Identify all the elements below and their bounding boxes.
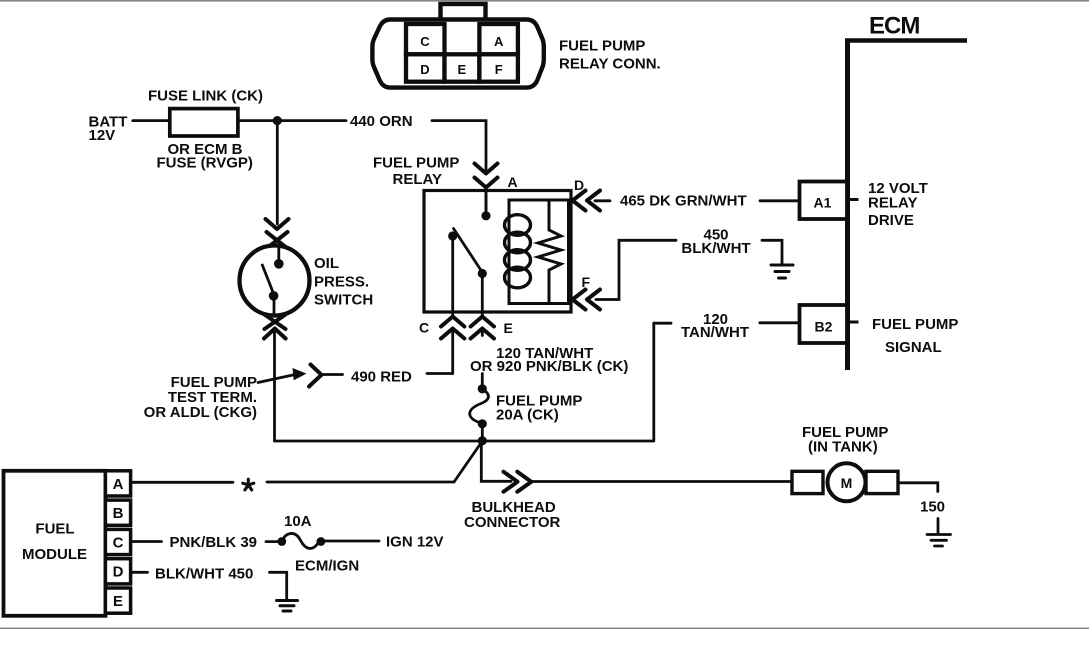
svg-text:TAN/WHT: TAN/WHT: [681, 324, 749, 341]
svg-text:RELAY CONN.: RELAY CONN.: [559, 55, 661, 72]
svg-text:RELAY: RELAY: [393, 171, 442, 188]
svg-text:12V: 12V: [89, 127, 116, 144]
svg-text:MODULE: MODULE: [22, 546, 87, 563]
svg-text:150: 150: [920, 498, 945, 515]
svg-text:F: F: [582, 274, 591, 290]
svg-text:M: M: [841, 475, 853, 491]
svg-text:A1: A1: [814, 195, 832, 211]
svg-text:B2: B2: [815, 318, 833, 334]
svg-text:SWITCH: SWITCH: [314, 291, 373, 308]
svg-text:FUEL PUMP: FUEL PUMP: [373, 154, 459, 171]
svg-text:DRIVE: DRIVE: [868, 212, 914, 229]
svg-text:D: D: [574, 177, 584, 193]
svg-text:440 ORN: 440 ORN: [350, 113, 413, 130]
svg-text:OR 920 PNK/BLK (CK): OR 920 PNK/BLK (CK): [470, 358, 628, 375]
svg-text:E: E: [113, 593, 123, 610]
svg-text:D: D: [420, 62, 429, 77]
svg-text:F: F: [495, 62, 503, 77]
svg-text:ECM/IGN: ECM/IGN: [295, 558, 359, 575]
svg-text:BLK/WHT: BLK/WHT: [681, 240, 750, 257]
svg-text:FUSE (RVGP): FUSE (RVGP): [157, 154, 253, 171]
svg-text:SIGNAL: SIGNAL: [885, 339, 942, 356]
svg-text:E: E: [504, 320, 513, 336]
svg-text:20A (CK): 20A (CK): [496, 406, 559, 423]
svg-text:C: C: [113, 534, 124, 551]
svg-text:OR ALDL (CKG): OR ALDL (CKG): [144, 404, 257, 421]
svg-text:FUEL: FUEL: [35, 521, 74, 538]
svg-text:CONNECTOR: CONNECTOR: [464, 514, 561, 531]
svg-text:FUEL PUMP: FUEL PUMP: [559, 38, 645, 55]
svg-text:10A: 10A: [284, 513, 312, 530]
svg-text:PNK/BLK 39: PNK/BLK 39: [170, 534, 258, 551]
svg-text:OIL: OIL: [314, 255, 339, 272]
svg-text:ECM: ECM: [869, 12, 919, 39]
svg-text:BLK/WHT 450: BLK/WHT 450: [155, 566, 253, 583]
svg-text:A: A: [508, 174, 518, 190]
svg-text:D: D: [113, 564, 124, 581]
svg-text:(IN TANK): (IN TANK): [808, 438, 878, 455]
svg-text:RELAY: RELAY: [868, 194, 917, 211]
svg-text:465 DK GRN/WHT: 465 DK GRN/WHT: [620, 192, 747, 209]
svg-text:PRESS.: PRESS.: [314, 273, 369, 290]
svg-text:B: B: [113, 505, 124, 522]
svg-text:E: E: [457, 62, 466, 77]
svg-text:C: C: [420, 34, 430, 49]
svg-text:A: A: [113, 476, 124, 493]
svg-text:FUEL PUMP: FUEL PUMP: [872, 316, 958, 333]
svg-text:C: C: [419, 320, 429, 336]
svg-text:FUSE LINK (CK): FUSE LINK (CK): [148, 87, 263, 104]
svg-text:A: A: [494, 34, 504, 49]
svg-text:490 RED: 490 RED: [351, 368, 412, 385]
svg-text:IGN 12V: IGN 12V: [386, 534, 444, 551]
